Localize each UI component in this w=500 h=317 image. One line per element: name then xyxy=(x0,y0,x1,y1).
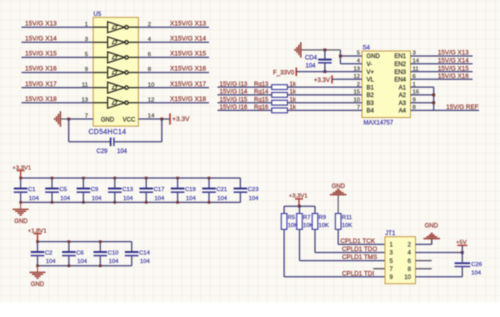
svg-text:X15V/G X15: X15V/G X15 xyxy=(170,51,207,58)
svg-text:15V/G REF: 15V/G REF xyxy=(446,104,478,111)
svg-text:EN4: EN4 xyxy=(394,78,406,84)
resistor Rg15 xyxy=(272,100,288,105)
svg-text:104: 104 xyxy=(155,196,166,202)
junction top rail at C1 xyxy=(19,177,22,180)
svg-text:GND: GND xyxy=(14,219,28,225)
junction at U5 GND xyxy=(67,118,70,121)
junction top rail at C21 xyxy=(208,177,211,180)
capacitor C21 xyxy=(208,178,210,188)
capacitor C2 xyxy=(37,242,39,252)
wire +3.3V to S4 pin 12 VL xyxy=(332,78,362,80)
svg-text:C17: C17 xyxy=(154,187,165,193)
wire bank2 bottom rail xyxy=(38,265,132,267)
hex inverter U5 CD54HC14 body xyxy=(93,17,138,126)
capacitor C13 xyxy=(114,178,116,188)
inverter gate 3 xyxy=(93,52,138,63)
svg-text:U5: U5 xyxy=(94,12,102,18)
resistor R9 xyxy=(312,214,318,230)
wire net 15V/G I14 xyxy=(218,94,272,96)
ground symbol bank1 xyxy=(20,202,22,209)
svg-text:15V/G I16: 15V/G I16 xyxy=(220,104,248,111)
svg-text:R5: R5 xyxy=(288,215,296,221)
svg-text:12: 12 xyxy=(148,97,155,103)
svg-text:13: 13 xyxy=(81,97,88,103)
resistor R11 xyxy=(335,214,341,230)
wire net 15V/G I15 xyxy=(218,102,272,104)
svg-text:R7: R7 xyxy=(303,215,311,221)
wire S4 EN2 to net 15V/G X14 xyxy=(411,63,473,65)
inverter gate 2 xyxy=(93,37,138,48)
resistor Rg16 xyxy=(272,108,288,113)
svg-text:B4: B4 xyxy=(367,109,375,115)
svg-text:R11: R11 xyxy=(342,215,352,221)
wire input row 15V/G X17 xyxy=(22,87,94,89)
wire vertical to pins 5 4 xyxy=(339,50,341,64)
svg-text:C26: C26 xyxy=(471,262,483,268)
svg-text:11: 11 xyxy=(82,82,88,88)
wire output row X15V/G X17 xyxy=(138,87,209,89)
ground symbol bank2 xyxy=(37,266,39,273)
svg-text:VCC: VCC xyxy=(123,117,136,123)
svg-text:104: 104 xyxy=(123,196,134,202)
svg-text:A1: A1 xyxy=(399,85,407,91)
junction at pin 4 xyxy=(461,251,464,254)
junction A3 xyxy=(432,101,435,104)
resistor R7 xyxy=(297,214,303,230)
wire output row X15V/G X16 xyxy=(138,72,209,74)
capacitor C19 xyxy=(177,178,179,188)
svg-text:104: 104 xyxy=(46,259,57,265)
capacitor C5 xyxy=(51,178,53,188)
capacitor C23 xyxy=(239,178,241,188)
junction bottom rail at C17 xyxy=(145,201,148,204)
svg-text:Rg13: Rg13 xyxy=(254,82,269,88)
svg-text:15V/G X18: 15V/G X18 xyxy=(25,96,57,103)
junction bottom rail at C19 xyxy=(176,201,179,204)
svg-text:15V/G X14: 15V/G X14 xyxy=(438,58,469,65)
wire output row X15V/G X14 xyxy=(138,41,209,43)
svg-text:CD54HC14: CD54HC14 xyxy=(89,129,127,136)
svg-text:A2: A2 xyxy=(399,93,407,99)
svg-text:C14: C14 xyxy=(139,251,151,257)
wire input row 15V/G X18 xyxy=(22,102,94,104)
junction at pin 5 branch xyxy=(339,55,342,58)
wire U5 pin 14 VCC to +3.3V xyxy=(138,118,170,120)
wire A bus vertical xyxy=(433,87,435,110)
svg-text:10: 10 xyxy=(404,275,411,281)
wire C29 bottom right xyxy=(114,141,161,143)
svg-text:X15V/G X18: X15V/G X18 xyxy=(170,96,207,103)
svg-text:X15V/G X13: X15V/G X13 xyxy=(170,20,207,27)
wire Rg16 to S4 pin B4 xyxy=(287,109,362,111)
svg-text:Rg16: Rg16 xyxy=(254,105,269,111)
wire output row X15V/G X18 xyxy=(138,102,209,104)
junction bottom rail at C9 xyxy=(82,201,85,204)
svg-text:104: 104 xyxy=(60,196,71,202)
ground symbol above R11 xyxy=(337,195,339,214)
svg-text:+3.3V: +3.3V xyxy=(314,77,331,84)
svg-text:104: 104 xyxy=(140,259,151,265)
wire output row X15V/G X15 xyxy=(138,56,209,58)
wire R11 to CPLD1_TCK xyxy=(337,229,339,244)
svg-text:S4: S4 xyxy=(363,45,371,51)
wire +1.8V1 top rail xyxy=(38,241,132,243)
wire input row 15V/G X14 xyxy=(22,41,94,43)
inverter gate 6 xyxy=(93,97,138,108)
junction bottom rail at C1 xyxy=(19,201,22,204)
svg-text:V-: V- xyxy=(367,62,373,68)
svg-text:EN2: EN2 xyxy=(394,62,406,68)
junction top rail at C10 xyxy=(99,240,102,243)
wire R5 top xyxy=(283,206,285,213)
svg-text:15V/G X13: 15V/G X13 xyxy=(25,20,57,27)
wire S4 EN3 to net 15V/G X15 xyxy=(411,71,473,73)
inverter gate 4 xyxy=(93,67,138,78)
stub JT1 pin 6 xyxy=(416,260,432,262)
wire S4 pin 4 V- xyxy=(340,63,362,65)
junction top rail at C5 xyxy=(51,177,54,180)
resistor Rg13 xyxy=(272,85,288,90)
capacitor C29 xyxy=(110,138,112,147)
svg-text:EN1: EN1 xyxy=(394,54,406,60)
svg-text:F_33V0: F_33V0 xyxy=(273,69,295,76)
wire Rg13 to S4 pin B1 xyxy=(287,86,362,88)
svg-text:15V/G X15: 15V/G X15 xyxy=(438,65,469,72)
stub JT1 pin 8 xyxy=(416,268,432,270)
svg-text:GND: GND xyxy=(31,282,45,288)
junction bottom rail at C6 xyxy=(68,265,71,268)
svg-text:104: 104 xyxy=(92,196,103,202)
svg-text:104: 104 xyxy=(249,196,260,202)
svg-text:CPLD1 TMS: CPLD1 TMS xyxy=(342,254,377,261)
svg-text:GND: GND xyxy=(367,54,381,60)
wire JT1 pin 4 to +5V xyxy=(416,252,463,254)
svg-text:X15V/G X14: X15V/G X14 xyxy=(170,36,207,43)
capacitor C26 xyxy=(455,262,471,264)
analog switch S4 MAX14757 body xyxy=(362,51,411,118)
junction CD4 bottom xyxy=(323,70,326,73)
junction bottom rail at C5 xyxy=(51,201,54,204)
junction top rail at C2 xyxy=(36,240,39,243)
wire S4 EN1 to net 15V/G X13 xyxy=(411,55,473,57)
resistor R5 xyxy=(281,214,287,230)
junction top rail at C17 xyxy=(145,177,148,180)
svg-text:15V/G X17: 15V/G X17 xyxy=(25,81,57,88)
inverter gate 5 xyxy=(93,82,138,93)
svg-text:R9: R9 xyxy=(319,215,327,221)
svg-text:MAX14757: MAX14757 xyxy=(364,121,394,127)
svg-text:C9: C9 xyxy=(91,187,99,193)
junction bottom rail at C21 xyxy=(208,201,211,204)
svg-text:C2: C2 xyxy=(45,251,53,257)
svg-text:2: 2 xyxy=(148,22,151,28)
wire R5 to CPLD1_TDI xyxy=(283,229,285,276)
svg-text:CPLD1 TDI: CPLD1 TDI xyxy=(342,270,374,277)
wire S4 A3 xyxy=(411,102,434,104)
svg-text:9: 9 xyxy=(85,67,88,73)
wire JT1 pin 2 to ground xyxy=(416,243,432,245)
power port F_33V0 xyxy=(295,68,297,77)
capacitor C14 xyxy=(131,242,133,252)
wire S4 A4 to 15V/G REF xyxy=(411,109,480,111)
svg-text:C6: C6 xyxy=(76,251,84,257)
wire F_33V0 to S4 pin 13 V+ xyxy=(296,71,362,73)
junction bottom rail at C13 xyxy=(114,201,117,204)
wire pullup rail xyxy=(284,205,315,207)
svg-text:C29: C29 xyxy=(97,149,109,155)
svg-text:104: 104 xyxy=(217,196,228,202)
capacitor C9 xyxy=(82,178,84,188)
svg-text:CD4: CD4 xyxy=(305,55,318,61)
wire +5V down to C26 xyxy=(461,245,463,262)
junction bottom rail at C2 xyxy=(36,265,39,268)
svg-text:104: 104 xyxy=(77,259,88,265)
wire S4 pin 5 GND xyxy=(340,55,362,57)
svg-text:15V/G I14: 15V/G I14 xyxy=(220,89,248,96)
capacitor C6 xyxy=(68,242,70,252)
junction bottom rail at C10 xyxy=(99,265,102,268)
svg-text:CPLD1 TCK: CPLD1 TCK xyxy=(341,238,376,245)
svg-text:B2: B2 xyxy=(367,93,375,99)
wire R9 top xyxy=(314,206,316,213)
svg-text:C13: C13 xyxy=(122,187,134,193)
svg-text:C21: C21 xyxy=(216,187,227,193)
svg-text:15V/G I15: 15V/G I15 xyxy=(220,96,248,103)
inverter gate 1 xyxy=(93,22,138,33)
svg-text:104: 104 xyxy=(306,63,317,69)
capacitor CD4 xyxy=(324,50,326,59)
junction top rail at C9 xyxy=(82,177,85,180)
svg-text:CPLD1 TDO: CPLD1 TDO xyxy=(342,246,377,253)
svg-text:GND: GND xyxy=(425,224,439,230)
svg-text:B3: B3 xyxy=(367,101,375,107)
svg-text:C23: C23 xyxy=(248,187,260,193)
svg-text:10: 10 xyxy=(148,82,155,88)
power port +3.3V at S4 xyxy=(331,75,333,83)
svg-text:1: 1 xyxy=(85,22,88,28)
wire R9 to CPLD1_TDO xyxy=(314,229,316,252)
resistor Rg14 xyxy=(272,93,288,98)
stub JT1 pin 7 xyxy=(373,268,385,270)
svg-text:Rg14: Rg14 xyxy=(254,90,269,96)
svg-text:EN3: EN3 xyxy=(394,70,406,76)
junction CD4 top xyxy=(323,48,326,51)
junction pullup rail xyxy=(298,205,301,208)
wire U5 pin 7 to ground xyxy=(69,118,94,120)
svg-text:15V/G I13: 15V/G I13 xyxy=(220,81,248,88)
junction at U5 VCC xyxy=(160,118,163,121)
svg-text:104: 104 xyxy=(186,196,197,202)
capacitor C1 xyxy=(20,178,22,188)
svg-text:GND: GND xyxy=(332,184,346,190)
svg-text:+3.3V: +3.3V xyxy=(172,116,190,123)
wire C29 right vertical xyxy=(161,119,163,142)
wire net 15V/G I16 xyxy=(218,109,272,111)
svg-text:Rg15: Rg15 xyxy=(254,97,269,103)
svg-text:C1: C1 xyxy=(28,187,36,193)
junction top rail at C13 xyxy=(114,177,117,180)
junction top rail at C19 xyxy=(176,177,179,180)
svg-text:JT1: JT1 xyxy=(385,231,396,237)
wire C29 left vertical xyxy=(68,119,70,142)
wire +3.3V1 top rail xyxy=(21,177,241,179)
svg-text:X15V/G X17: X15V/G X17 xyxy=(170,81,207,88)
wire R7 top xyxy=(299,206,301,213)
power port +3.3V xyxy=(169,113,171,124)
svg-text:104: 104 xyxy=(109,259,120,265)
svg-text:A3: A3 xyxy=(399,101,407,107)
svg-text:C19: C19 xyxy=(185,187,196,193)
wire S4 A2 xyxy=(411,94,434,96)
wire input row 15V/G X16 xyxy=(22,72,94,74)
capacitor C17 xyxy=(145,178,147,188)
wire input row 15V/G X15 xyxy=(22,56,94,58)
svg-text:104: 104 xyxy=(117,149,128,155)
capacitor C10 xyxy=(99,242,101,252)
svg-text:15V/G X14: 15V/G X14 xyxy=(25,36,57,43)
ground symbol at U5 pin 7 xyxy=(60,118,68,120)
svg-text:C5: C5 xyxy=(59,187,67,193)
junction top rail at C6 xyxy=(68,240,71,243)
wire input row 15V/G X13 xyxy=(22,26,94,28)
wire S4 A1 xyxy=(411,86,434,88)
svg-text:A4: A4 xyxy=(399,109,407,115)
svg-text:B1: B1 xyxy=(367,85,375,91)
connector JT1 body xyxy=(385,237,416,284)
wire bank1 bottom rail xyxy=(21,201,241,203)
svg-text:10K: 10K xyxy=(342,223,353,229)
wire output row X15V/G X13 xyxy=(138,26,209,28)
wire S4 EN4 to net 15V/G X16 xyxy=(411,78,473,80)
ground symbol at S4 xyxy=(301,49,341,51)
wire Rg15 to S4 pin B3 xyxy=(287,102,362,104)
wire C29 bottom left xyxy=(69,141,111,143)
svg-text:C10: C10 xyxy=(108,251,120,257)
wire C26 to JT1 pin 10 xyxy=(461,267,463,277)
junction A2 xyxy=(432,93,435,96)
wire net 15V/G I13 xyxy=(218,86,272,88)
svg-text:GND: GND xyxy=(101,117,115,123)
svg-text:X15V/G X16: X15V/G X16 xyxy=(170,66,207,73)
svg-text:10K: 10K xyxy=(319,223,330,229)
wire R7 to CPLD1_TMS xyxy=(299,229,301,260)
svg-text:104: 104 xyxy=(29,196,40,202)
svg-text:15V/G X13: 15V/G X13 xyxy=(438,50,469,57)
svg-text:15V/G X15: 15V/G X15 xyxy=(25,51,57,58)
svg-text:104: 104 xyxy=(471,270,482,276)
svg-text:15V/G X16: 15V/G X16 xyxy=(25,66,57,73)
svg-text:VL: VL xyxy=(367,78,375,84)
svg-text:V+: V+ xyxy=(367,70,375,76)
svg-text:15V/G X16: 15V/G X16 xyxy=(438,73,469,80)
wire Rg14 to S4 pin B2 xyxy=(287,94,362,96)
ground symbol at JT1 pin 2 xyxy=(431,239,433,245)
